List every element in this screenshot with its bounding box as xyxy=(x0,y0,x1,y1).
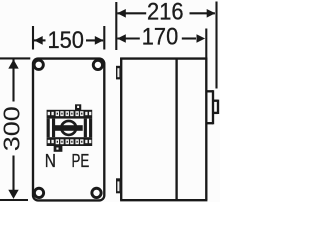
switch bottom cable tab xyxy=(54,146,63,152)
216 dim right shaft xyxy=(190,12,215,14)
300 dim vertical line lower segment xyxy=(12,156,14,198)
170 dim right shaft xyxy=(182,37,196,39)
side view front face line xyxy=(205,58,207,200)
svg-text:300: 300 xyxy=(0,106,25,151)
latch knob bottom xyxy=(213,112,218,114)
150 dim right extension line xyxy=(103,26,105,50)
mounting hole bottom-right xyxy=(92,188,101,197)
150 dim left shaft xyxy=(34,39,46,41)
150 dim left arrowhead xyxy=(34,36,43,45)
side view lower wall-mounting tab xyxy=(116,178,121,193)
300 dim bottom extension line xyxy=(0,199,28,201)
170 dim left arrowhead xyxy=(117,34,126,43)
side view cover divider line xyxy=(175,59,177,200)
170 dim right extension line xyxy=(205,29,207,58)
mounting hole top-right xyxy=(93,60,102,69)
latch housing top stub xyxy=(206,90,213,92)
svg-text:170: 170 xyxy=(142,23,179,50)
170 dim right arrowhead xyxy=(197,34,206,43)
switch body left side bars xyxy=(47,119,50,138)
latch housing bottom stub xyxy=(206,122,213,124)
side view bottom edge xyxy=(120,199,207,201)
216 dim right extension line xyxy=(215,2,217,89)
216 dim left shaft xyxy=(117,12,146,14)
latch knob face xyxy=(217,100,219,114)
enclosure front view body xyxy=(33,59,104,201)
mounting hole bottom-left xyxy=(34,188,43,197)
switch top terminal band xyxy=(47,110,93,119)
216 dim left extension line xyxy=(115,2,117,50)
300 dim vertical line upper segment xyxy=(12,60,14,102)
svg-text:216: 216 xyxy=(147,0,184,25)
switch bottom terminal band xyxy=(47,137,93,146)
switch top cable tab xyxy=(75,104,81,110)
300 dim top extension line xyxy=(0,57,30,59)
switch handle bar xyxy=(55,125,83,131)
216 dim left arrowhead xyxy=(117,9,126,18)
svg-text:N: N xyxy=(45,151,56,171)
300 dim top arrowhead xyxy=(8,59,18,68)
150 dim left extension line xyxy=(32,26,34,50)
170 dim left shaft xyxy=(117,37,140,39)
side view upper wall-mounting tab xyxy=(116,66,121,80)
svg-text:150: 150 xyxy=(47,27,84,54)
mounting hole top-left xyxy=(34,60,43,69)
svg-text:PE: PE xyxy=(72,151,90,171)
side view left wall edge xyxy=(120,58,122,201)
switch body right side bars xyxy=(84,119,87,138)
latch housing face xyxy=(212,90,214,124)
latch knob top xyxy=(213,100,218,102)
150 dim right arrowhead xyxy=(95,36,104,45)
150 dim right shaft xyxy=(86,39,103,41)
side view top edge xyxy=(120,57,207,59)
switch rotary handle ring xyxy=(61,121,76,135)
216 dim right arrowhead xyxy=(207,9,216,18)
300 dim bottom arrowhead xyxy=(8,190,18,199)
